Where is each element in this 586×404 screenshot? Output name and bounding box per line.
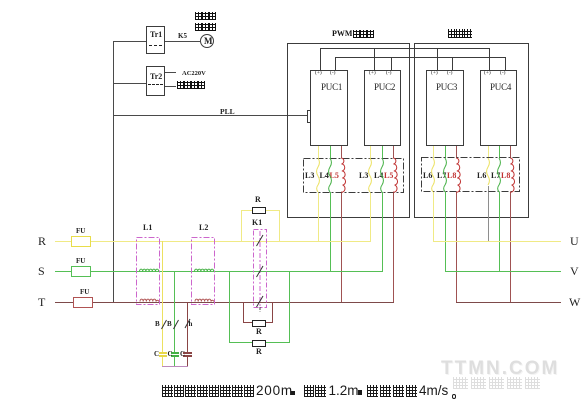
bus drop PUC2- bbox=[391, 57, 392, 70]
reactor labels L6 L7 L8 group C bbox=[423, 172, 432, 180]
watermark chinese bbox=[453, 377, 544, 393]
W output bus bbox=[456, 302, 561, 303]
bypass loop red right bbox=[272, 302, 273, 323]
wire PLL bbox=[113, 115, 309, 116]
bus drop PUC3+ bbox=[437, 48, 438, 70]
label V bbox=[570, 265, 579, 277]
S phase bus bbox=[55, 271, 383, 272]
reactor L1 box bbox=[137, 238, 160, 305]
fuse FU on S bbox=[71, 266, 91, 277]
bypass loop red bottom bbox=[243, 322, 273, 323]
DC bus minus bbox=[335, 57, 505, 58]
verticals inverter to V (green) bbox=[445, 192, 446, 272]
inverter outer box bbox=[414, 43, 529, 218]
transformer Tr2 bbox=[146, 66, 165, 96]
PUC4 unit bbox=[480, 70, 517, 146]
T phase bus bbox=[55, 302, 394, 303]
label L2 bbox=[199, 224, 208, 232]
label K1 bbox=[252, 219, 262, 227]
PWM rectifier outer box bbox=[287, 43, 410, 218]
coil L8 red D bbox=[510, 158, 515, 192]
coil L8 red C bbox=[456, 158, 461, 192]
bus drop PUC1+ bbox=[320, 48, 321, 70]
verticals reactor box to S bus (green) bbox=[330, 192, 331, 272]
reactor labels L3 L4 L5 group B bbox=[359, 172, 368, 180]
wires PUC1 to reactor box bbox=[318, 146, 319, 158]
control feeder vertical wire bbox=[113, 41, 114, 302]
label R bbox=[38, 235, 46, 247]
coil L2 red horizontal bbox=[195, 299, 214, 301]
capacitor label C bbox=[180, 351, 185, 358]
caption comma mark bbox=[358, 390, 362, 395]
bus drop PUC2+ bbox=[374, 48, 375, 70]
PUC3 unit bbox=[426, 70, 464, 146]
bypass loop green left bbox=[229, 271, 230, 343]
precharge resistor R yellow loop left bbox=[241, 210, 242, 241]
label S bbox=[38, 265, 45, 277]
coil L7 green C bbox=[444, 158, 447, 192]
connector on PUC1 bbox=[307, 110, 313, 123]
wires PUC4 to reactor box bbox=[488, 146, 489, 158]
resistor R green box bbox=[252, 340, 266, 347]
contactor K1 box bbox=[254, 230, 267, 308]
vertical inverter to U (gray wire) bbox=[488, 186, 489, 241]
label inverter bbox=[448, 29, 472, 45]
wire to Tr1 bbox=[113, 41, 146, 42]
fuse FU on T bbox=[73, 297, 93, 308]
PUC2 unit bbox=[364, 70, 401, 146]
wire Tr1 to motor bbox=[165, 41, 200, 42]
capacitor branch green bbox=[174, 271, 175, 353]
label R red bbox=[256, 328, 262, 336]
label R green bbox=[256, 348, 262, 356]
verticals inverter to U (yellow) bbox=[433, 192, 434, 241]
reactor L2 box bbox=[192, 238, 215, 305]
wires PUC3 to reactor box bbox=[433, 146, 434, 158]
label L1 bbox=[143, 224, 152, 232]
coil L5 red B bbox=[393, 158, 398, 192]
reactor labels L6 L7 L8 group D bbox=[477, 172, 486, 180]
U output bus bbox=[433, 241, 561, 242]
verticals reactor box to T bus (red) bbox=[341, 192, 342, 302]
label PWM rectifier bbox=[332, 30, 374, 38]
coil L5 red A bbox=[341, 158, 346, 192]
wire Tr2 out2 bbox=[165, 86, 176, 87]
bus drop PUC3- bbox=[452, 57, 453, 70]
breaker switch red bbox=[185, 319, 190, 328]
label T bbox=[38, 296, 45, 308]
coil L4 green B bbox=[381, 158, 384, 192]
label PLL bbox=[220, 108, 235, 116]
caption dun mark bbox=[291, 391, 295, 395]
capacitor label C bbox=[154, 351, 159, 358]
label U bbox=[570, 235, 579, 247]
coil L3 yellow A bbox=[317, 158, 320, 192]
switch label B bbox=[155, 321, 160, 328]
DC bus plus bbox=[320, 48, 490, 49]
yellow loop top bbox=[241, 210, 279, 211]
bypass loop green right bbox=[289, 271, 290, 343]
breaker switch green bbox=[174, 320, 179, 329]
bus drop PUC4+ bbox=[489, 48, 490, 70]
label fan line2 bbox=[195, 23, 216, 39]
wire to Tr2 bbox=[113, 83, 146, 84]
K1 contact yellow bbox=[257, 235, 264, 246]
verticals reactor box to R bus (yellow) bbox=[318, 192, 319, 241]
label R top bbox=[255, 196, 261, 204]
label fan line1 bbox=[195, 12, 216, 28]
resistor R top box bbox=[252, 207, 266, 214]
switch label B bbox=[167, 321, 172, 328]
coil L1 red horizontal bbox=[140, 299, 159, 301]
motor M bbox=[200, 34, 214, 48]
capacitor label C bbox=[168, 351, 173, 358]
coil L6 yellow C bbox=[432, 158, 435, 192]
reactor box L6L7L8 bbox=[422, 158, 520, 192]
coil L7 green D bbox=[498, 158, 501, 192]
capacitor star bottom wire bbox=[162, 366, 188, 367]
yellow loop right bbox=[279, 210, 280, 241]
R phase bus bbox=[55, 241, 371, 242]
coil L4 green A bbox=[329, 158, 332, 192]
wires PUC2 to reactor box bbox=[370, 146, 371, 158]
reactor box L3L4L5 bbox=[304, 159, 404, 193]
caption line bbox=[162, 385, 256, 401]
resistor R red box bbox=[252, 320, 266, 327]
verticals inverter to W (red) bbox=[456, 192, 457, 302]
label K5 bbox=[178, 33, 187, 40]
fuse FU on R bbox=[71, 236, 91, 247]
V output bus bbox=[445, 271, 561, 272]
PUC1 unit bbox=[310, 70, 348, 146]
label W bbox=[569, 296, 580, 308]
label control voltage bbox=[177, 81, 205, 97]
transformer Tr1 bbox=[146, 26, 165, 54]
capacitor branch yellow bbox=[162, 241, 163, 353]
watermark TTMN.COM bbox=[441, 359, 559, 378]
switch label h bbox=[189, 321, 193, 328]
coil L1 green horizontal bbox=[140, 269, 159, 271]
K1 linkage line bbox=[259, 231, 261, 307]
breaker switch yellow bbox=[162, 320, 167, 329]
coil L6 yellow D bbox=[487, 158, 490, 185]
label AC220V bbox=[182, 71, 206, 78]
wire Tr2 out1 bbox=[165, 72, 176, 73]
reactor labels L3 L4 L5 group A bbox=[305, 172, 314, 180]
bus drop PUC1- bbox=[335, 57, 336, 70]
caption period ring bbox=[452, 394, 457, 399]
capacitor branch red bbox=[187, 302, 188, 353]
bus drop PUC4- bbox=[505, 57, 506, 70]
coil L2 green horizontal bbox=[195, 269, 214, 271]
bypass loop green bottom bbox=[229, 342, 289, 343]
bypass loop red left bbox=[243, 302, 244, 323]
K1 contact red bbox=[257, 296, 264, 307]
K1 contact green bbox=[257, 266, 264, 277]
coil L3 yellow B bbox=[369, 158, 372, 192]
